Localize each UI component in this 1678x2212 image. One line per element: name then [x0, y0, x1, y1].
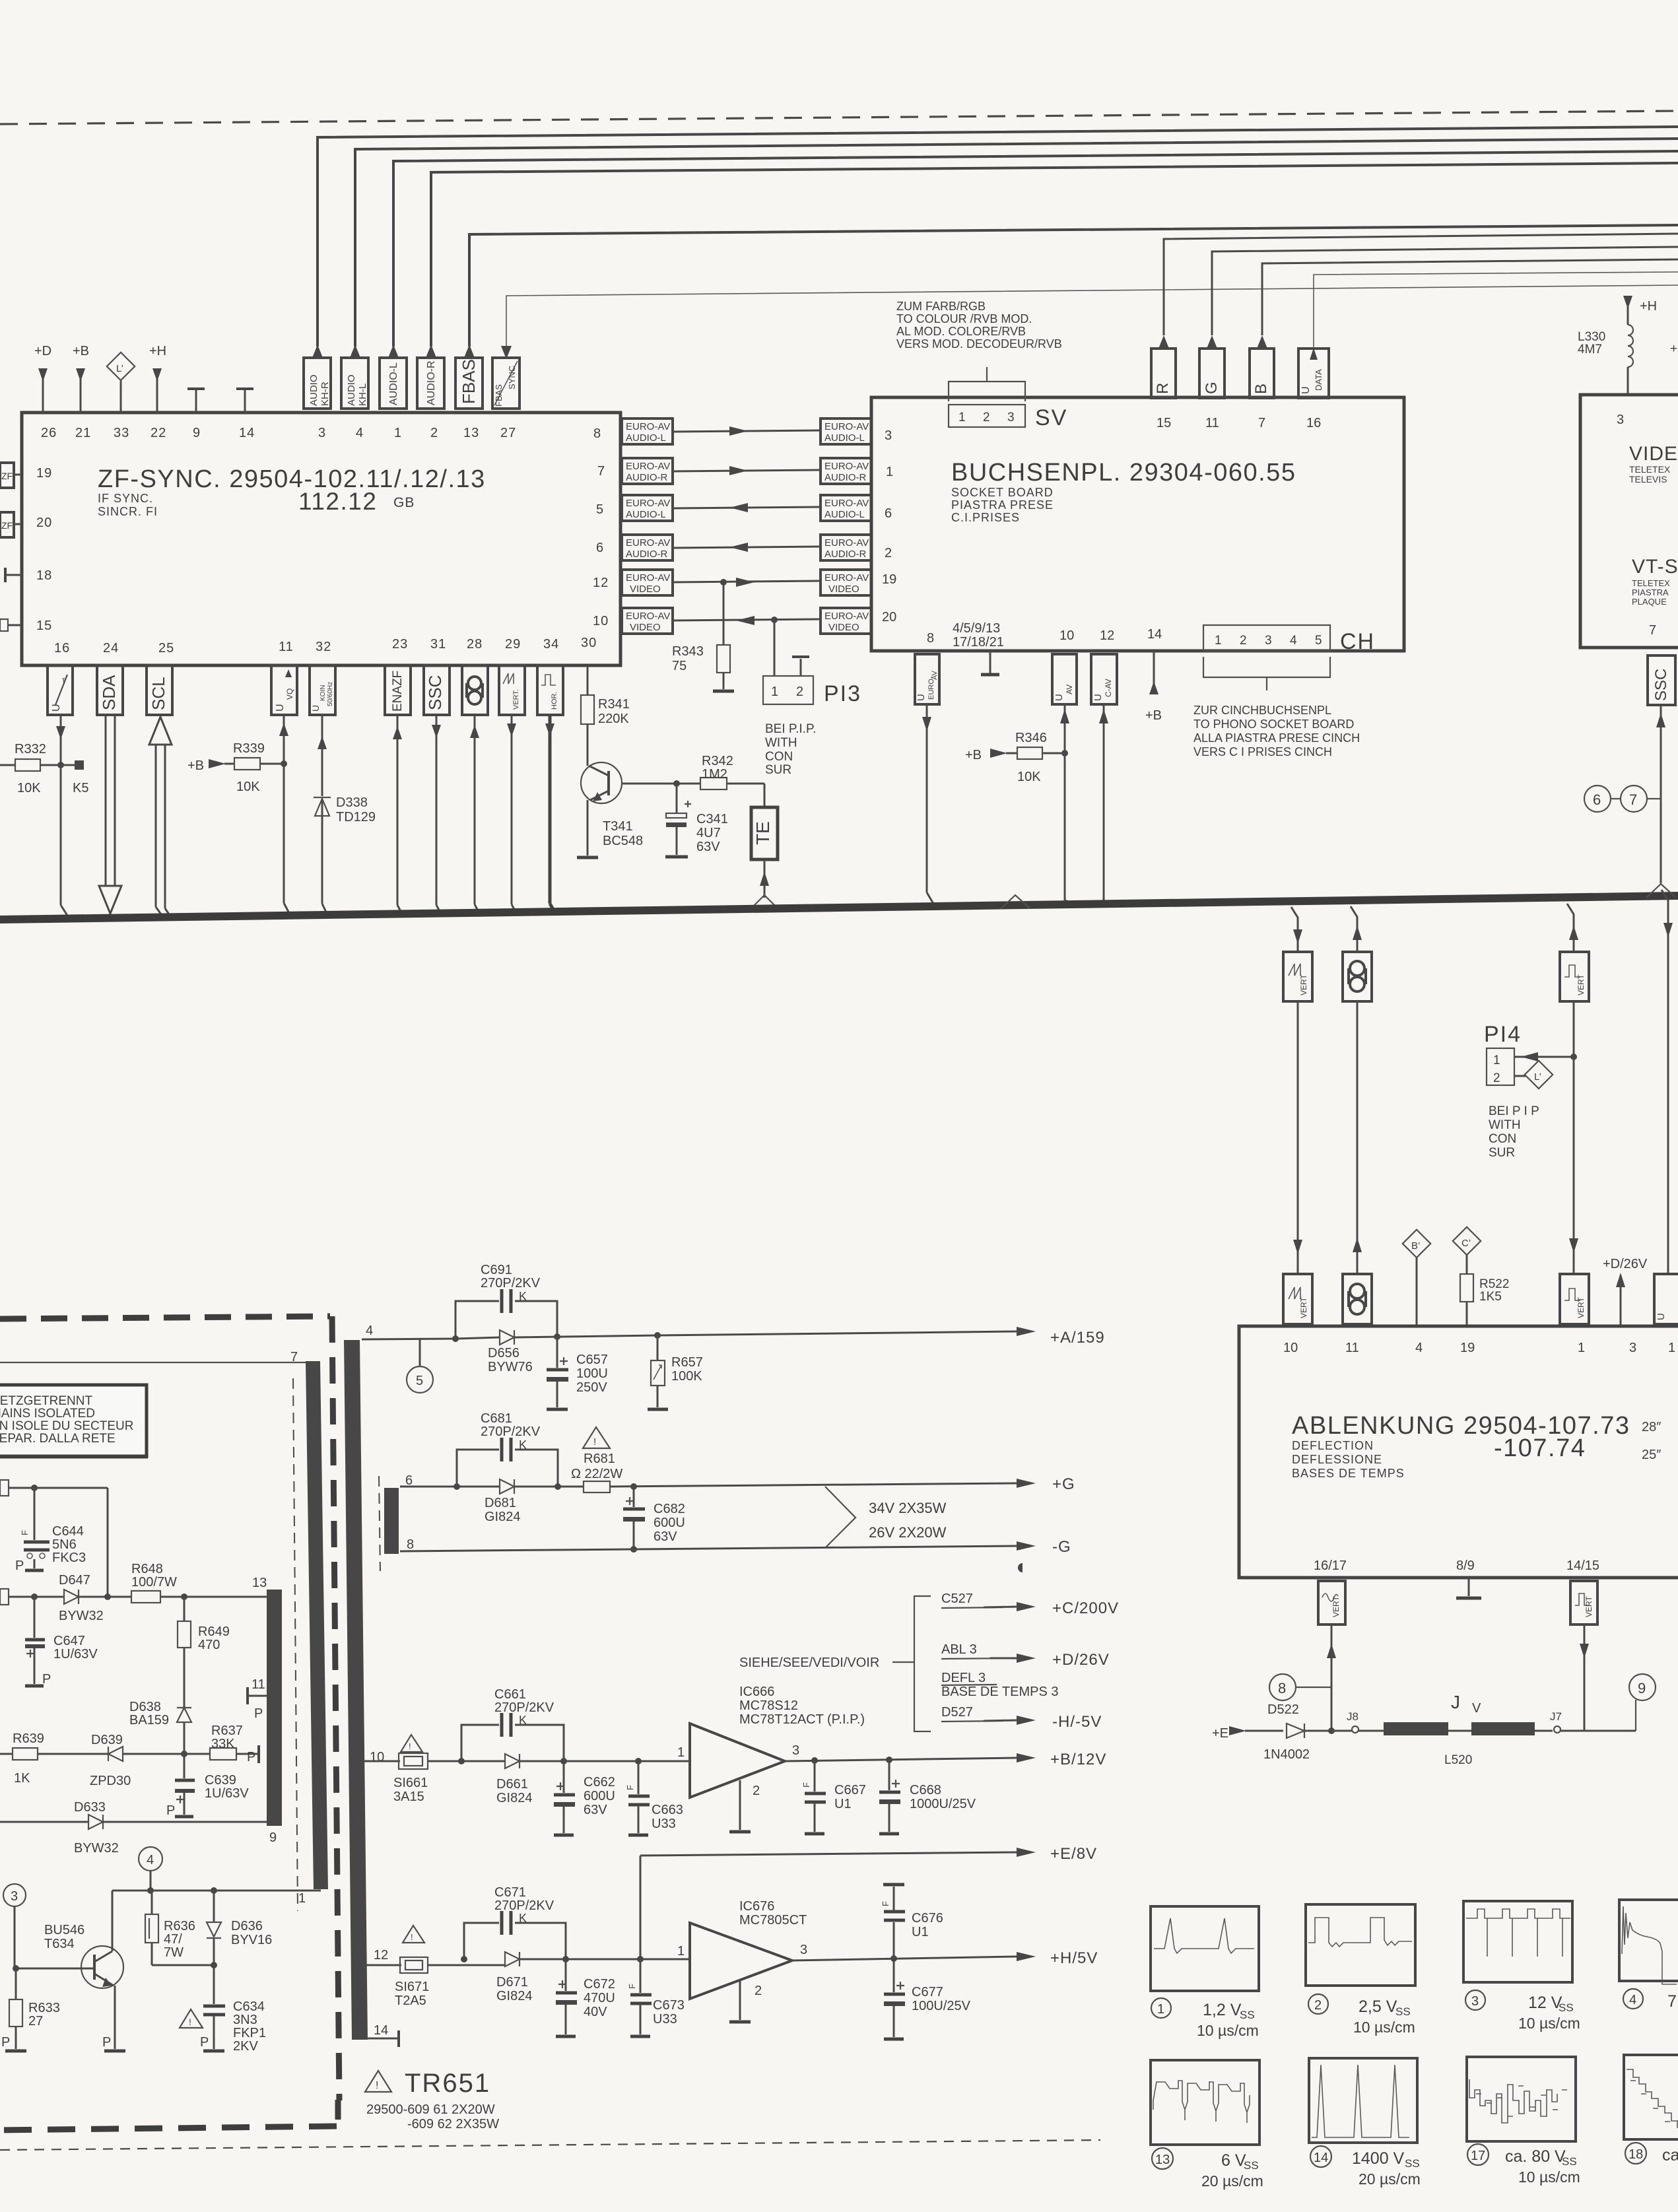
svg-text:AUDIO: AUDIO: [308, 374, 319, 406]
svg-text:1: 1: [1668, 1341, 1675, 1355]
capacitor C647 1U/63V: [25, 1597, 98, 1687]
svg-text:AUDIO-L: AUDIO-L: [824, 432, 865, 444]
svg-text:P: P: [102, 2035, 111, 2050]
svg-text:VIDEO: VIDEO: [828, 622, 859, 633]
svg-text:+B: +B: [965, 748, 982, 762]
svg-text:470: 470: [198, 1638, 220, 1652]
svg-text:L520: L520: [1444, 1753, 1472, 1767]
svg-text:C662: C662: [584, 1775, 615, 1790]
connector box U-tau ZF pin16: [48, 665, 73, 715]
svg-text:1: 1: [677, 1944, 685, 1959]
svg-text:14: 14: [1147, 627, 1162, 642]
svg-text:2: 2: [1240, 634, 1247, 648]
wire coil chain down: [1353, 1001, 1362, 1274]
svg-text:!: !: [411, 1932, 413, 1942]
svg-text:SS: SS: [1240, 2009, 1255, 2021]
svg-text:BUCHSENPL. 29304-060.55: BUCHSENPL. 29304-060.55: [951, 459, 1296, 486]
transformer pin6 output wire +G row: [400, 1473, 500, 1490]
svg-text:!: !: [376, 2080, 378, 2091]
svg-text:1U/63V: 1U/63V: [205, 1786, 249, 1801]
svg-text:R343: R343: [672, 644, 704, 659]
bus arrow SDA double line down: [99, 715, 121, 914]
power +B stub buchsenpl pin14: [1145, 651, 1162, 723]
svg-text:P: P: [1, 2035, 10, 2050]
svg-text:D633: D633: [74, 1800, 106, 1815]
wire ZF pin11 U-VQ to bus: [279, 715, 290, 916]
svg-text:TELEVIS: TELEVIS: [1629, 474, 1667, 485]
svg-text:U: U: [1656, 1313, 1667, 1320]
svg-text:L330: L330: [1578, 330, 1605, 344]
svg-text:R339: R339: [233, 741, 265, 756]
svg-text:EURO-AV: EURO-AV: [824, 611, 869, 622]
module boundary thin dashed bottom: [0, 2140, 1100, 2150]
svg-text:TR651: TR651: [405, 2069, 490, 2098]
svg-text:250V: 250V: [576, 1380, 607, 1395]
connector box coil icon upper: [1343, 952, 1372, 1001]
svg-text:AL MOD. COLORE/RVB: AL MOD. COLORE/RVB: [896, 325, 1026, 338]
svg-text:SSC: SSC: [1652, 669, 1670, 701]
svg-text:4: 4: [1415, 1341, 1423, 1355]
svg-text:112.12: 112.12: [298, 488, 377, 515]
ZF left pin numbers: [36, 466, 52, 633]
svg-text:20 µs/cm: 20 µs/cm: [1201, 2172, 1263, 2190]
svg-text:T341: T341: [603, 819, 633, 834]
svg-text:EURO-AV: EURO-AV: [626, 572, 670, 584]
svg-text:-107.74: -107.74: [1494, 1434, 1586, 1462]
svg-text:PIASTRA: PIASTRA: [1632, 587, 1669, 597]
svg-text:AUDIO-R: AUDIO-R: [824, 472, 867, 483]
oscillogram label 14: [1310, 2146, 1421, 2188]
power +D arrow on ZF pin26: [34, 344, 51, 413]
svg-text:MAINS ISOLATED: MAINS ISOLATED: [0, 1407, 95, 1421]
svg-text:9: 9: [269, 1830, 277, 1845]
svg-text:AUDIO: AUDIO: [346, 374, 357, 406]
svg-text:C671: C671: [494, 1885, 526, 1900]
svg-text:AUDIO-R: AUDIO-R: [626, 472, 668, 483]
connector box B buchsenpl pin7: [1250, 259, 1678, 398]
wire bus to deflection pin1 pulse: [1567, 904, 1578, 952]
resistor R681 22/2W with warning: [571, 1427, 1017, 1492]
label ZUR CINCHBUCHSENPL block: [1193, 704, 1360, 758]
oscillogram box 1: [1151, 1906, 1259, 1991]
svg-text:ENAZF: ENAZF: [391, 671, 405, 712]
svg-text:SI661: SI661: [393, 1776, 428, 1790]
svg-text:CON: CON: [765, 750, 793, 764]
svg-text:J8: J8: [1347, 1710, 1359, 1723]
svg-text:VERT: VERT: [1576, 974, 1586, 995]
label ZUM FARB/RGB block: [896, 300, 1062, 351]
oscillogram label 1: [1151, 1998, 1259, 2039]
svg-text:D647: D647: [59, 1573, 90, 1588]
svg-text:ZUR CINCHBUCHSENPL: ZUR CINCHBUCHSENPL: [1193, 704, 1331, 717]
svg-text:33: 33: [114, 426, 129, 440]
svg-text:10 µs/cm: 10 µs/cm: [1518, 2015, 1580, 2032]
svg-text:5: 5: [1315, 634, 1322, 648]
connector stub pin5 left edge: [0, 1589, 64, 1605]
svg-text:1U/63V: 1U/63V: [53, 1647, 98, 1661]
BUCHSENPL left pin numbers: [882, 428, 896, 624]
svg-text:R332: R332: [15, 742, 46, 756]
wire transformer pin7: [0, 1350, 306, 1364]
svg-text:R: R: [1154, 383, 1172, 394]
svg-text:+B: +B: [73, 344, 89, 358]
capacitor C668 1000U/25V: [879, 1760, 976, 1834]
svg-text:63V: 63V: [584, 1803, 607, 1817]
svg-text:BEI P I P: BEI P I P: [1489, 1104, 1539, 1118]
svg-text:P: P: [15, 1558, 24, 1573]
capacitor C677 100U/25V: [884, 1959, 971, 2039]
svg-text:7: 7: [1667, 1992, 1677, 2011]
BUCHSENPL bottom pin numbers: [927, 627, 1162, 646]
connector box VERT sawtooth upper: [1283, 952, 1312, 1001]
svg-text:3: 3: [800, 1943, 807, 1957]
svg-text:ZUM FARB/RGB: ZUM FARB/RGB: [896, 300, 986, 313]
svg-text:26V 2X20W: 26V 2X20W: [869, 1524, 947, 1541]
svg-text:63V: 63V: [696, 840, 720, 854]
svg-text:22: 22: [151, 426, 166, 440]
svg-text:7: 7: [1258, 416, 1265, 430]
svg-text:12: 12: [374, 1948, 388, 1962]
svg-text:40V: 40V: [584, 2005, 607, 2019]
oscillogram label 4: [1623, 1989, 1677, 2011]
svg-text:VERT: VERT: [1299, 1297, 1308, 1318]
svg-text:3N3: 3N3: [233, 2013, 257, 2027]
svg-text:FKP1: FKP1: [233, 2026, 266, 2040]
connector box SSC video board pin7: [1648, 655, 1675, 883]
svg-text:11: 11: [1205, 416, 1219, 430]
rail tap ABL 3 to +D/26V: [941, 1642, 1110, 1669]
svg-text:MC7805CT: MC7805CT: [739, 1913, 807, 1927]
connector CH 1 2 3 4 5: [1203, 625, 1375, 690]
svg-text:VIDEO: VIDEO: [630, 584, 661, 595]
svg-text:R633: R633: [28, 2001, 60, 2015]
diode D681 GI824: [485, 1479, 584, 1524]
svg-text:GI824: GI824: [485, 1510, 520, 1524]
svg-text:75: 75: [672, 659, 687, 673]
svg-text:13: 13: [463, 426, 479, 440]
connector box G buchsenpl pin11: [1199, 247, 1678, 398]
svg-text:VT-S: VT-S: [1632, 556, 1678, 578]
resistor R649 470: [178, 1597, 230, 1710]
oscillogram box 18: [1624, 2055, 1678, 2139]
connector box FBAS pin13: [455, 345, 483, 409]
bus arrow SCL double line up: [149, 717, 172, 917]
connector box VERT sawtooth lower: [1283, 1274, 1312, 1324]
svg-text:SS: SS: [1405, 2157, 1420, 2170]
svg-text:1: 1: [1493, 1054, 1500, 1067]
svg-text:24: 24: [103, 641, 119, 655]
svg-text:5: 5: [416, 1374, 423, 1388]
svg-text:BASE DE TEMPS 3: BASE DE TEMPS 3: [941, 1685, 1058, 1699]
connector box HOR pulse ZF pin34: [537, 665, 563, 715]
svg-text:7W: 7W: [164, 1945, 184, 1960]
svg-text:1K: 1K: [14, 1771, 30, 1786]
power rail +H/5V arrow: [792, 1949, 1098, 1967]
svg-text:18: 18: [36, 568, 52, 583]
terminal T pin14: [236, 389, 253, 413]
svg-text:K5: K5: [73, 781, 88, 795]
connector box U-VQ ZF pin11: [271, 665, 297, 715]
svg-text:SV: SV: [1035, 405, 1067, 430]
svg-text:10: 10: [593, 614, 609, 628]
svg-text:1K5: 1K5: [1479, 1290, 1502, 1304]
svg-text:EURO-AV: EURO-AV: [626, 421, 670, 432]
connector EURO-AV boxes left column on ZF right edge: [622, 419, 871, 634]
svg-text:12: 12: [593, 576, 609, 590]
label SIEHE/SEE/VEDI/VOIR with bracket: [739, 1596, 931, 1731]
svg-text:21: 21: [75, 426, 91, 440]
ABLENKUNG bottom pin numbers: [1314, 1558, 1599, 1573]
transistor T341 BC548: [577, 762, 700, 857]
capacitor C682 600U 63V: [623, 1487, 685, 1553]
svg-text:2: 2: [1493, 1071, 1500, 1085]
svg-text:3: 3: [1629, 1341, 1636, 1355]
svg-text:19: 19: [36, 466, 52, 481]
connector box EURO-AV VIDEO pin12: [622, 570, 673, 595]
svg-text:TD129: TD129: [336, 810, 376, 824]
svg-text:P: P: [42, 1672, 51, 1687]
power +H arrow with inductor L330 4M7: [1578, 296, 1677, 395]
svg-text:7: 7: [597, 464, 605, 479]
svg-text:20: 20: [36, 516, 52, 530]
bus entry triangle under TE: [1001, 895, 1030, 909]
svg-text:4: 4: [147, 1853, 154, 1867]
svg-text:D527: D527: [941, 1705, 973, 1720]
svg-text:VERT: VERT: [1576, 1297, 1586, 1318]
svg-text:EURO-AV: EURO-AV: [626, 498, 670, 509]
connector box EURO-AV AUDIO-L buchsenpl pin6: [821, 495, 871, 521]
connector box coil icon ZF pin28: [462, 665, 488, 715]
svg-text:C657: C657: [576, 1353, 608, 1367]
svg-text:P: P: [254, 1706, 263, 1721]
wire VERT chain down: [1293, 1001, 1302, 1274]
svg-text:FKC3: FKC3: [52, 1551, 86, 1565]
fuse SI661 3A15 with warning: [364, 1735, 505, 1804]
svg-text:L’: L’: [1534, 1071, 1541, 1083]
wire pulse chain down through PI4 junction: [1569, 1001, 1578, 1274]
ABLENKUNG top pin numbers: [1283, 1341, 1675, 1355]
ZF top pin numbers: [41, 426, 516, 440]
svg-text:+G: +G: [1052, 1475, 1075, 1493]
svg-text:AUDIO-R: AUDIO-R: [626, 549, 668, 560]
svg-text:C639: C639: [205, 1773, 236, 1788]
svg-text:U: U: [916, 694, 927, 701]
svg-text:15: 15: [36, 619, 52, 633]
svg-text:B: B: [1252, 384, 1270, 394]
svg-text:TO COLOUR /RVB MOD.: TO COLOUR /RVB MOD.: [896, 312, 1032, 325]
block BUCHSENPL socket board: [871, 397, 1404, 651]
svg-text:MC78S12: MC78S12: [739, 1698, 798, 1713]
svg-text:9: 9: [193, 426, 201, 440]
node C' diamond: [1453, 1227, 1481, 1255]
svg-text:!: !: [593, 1436, 596, 1448]
svg-text:C644: C644: [52, 1524, 84, 1539]
resistor R522 1K5: [1460, 1255, 1509, 1326]
svg-text:C’: C’: [1461, 1238, 1471, 1249]
svg-text:CH: CH: [1340, 629, 1375, 654]
svg-text:10 µs/cm: 10 µs/cm: [1353, 2019, 1415, 2036]
svg-text:C-AV: C-AV: [1104, 679, 1113, 697]
svg-text:16: 16: [1306, 416, 1321, 430]
svg-text:AUDIO-R: AUDIO-R: [426, 360, 437, 405]
svg-text:9: 9: [1638, 1680, 1646, 1696]
svg-text:2: 2: [885, 546, 892, 560]
label BEI P.I.P WITH CON SUR: [765, 722, 816, 777]
terminal K5: [61, 760, 88, 795]
svg-text:6: 6: [596, 541, 604, 555]
svg-text:SIEHE/SEE/VEDI/VOIR: SIEHE/SEE/VEDI/VOIR: [739, 1656, 879, 1670]
connector box U AV buchsenpl pin10: [1052, 654, 1077, 902]
diode D638 BA159: [129, 1700, 191, 1754]
svg-text:R681: R681: [584, 1452, 615, 1466]
wire collector row to winding pin1: [112, 1887, 321, 1906]
connector PI3: [763, 620, 861, 706]
svg-text:B’: B’: [1411, 1240, 1420, 1252]
svg-text:-H/-5V: -H/-5V: [1052, 1713, 1102, 1731]
svg-text:F: F: [625, 1785, 635, 1790]
wire bus to deflection pin10 sawtooth: [1291, 907, 1302, 952]
power module heavy dashed boundary right vertical: [332, 1316, 339, 2100]
svg-text:16: 16: [54, 641, 70, 655]
capacitor C639 1U/63V: [166, 1754, 249, 1818]
svg-text:3: 3: [1617, 413, 1624, 427]
svg-text:C667: C667: [834, 1783, 866, 1797]
connector box EURO-AV VIDEO buchsenpl pin20: [821, 608, 871, 634]
capacitor C341 4U7 63V: [665, 780, 728, 857]
wire ZF pin29 VERT to bus: [507, 715, 518, 916]
svg-text:13: 13: [252, 1576, 267, 1590]
svg-text:1: 1: [1215, 634, 1222, 648]
svg-text:+A/159: +A/159: [1050, 1329, 1105, 1347]
connector stub pin4 left edge: [0, 1480, 108, 1597]
svg-text:EURO-AV: EURO-AV: [626, 537, 670, 549]
ZF bottom pin numbers: [54, 636, 597, 655]
svg-text:29: 29: [505, 637, 521, 652]
diode D636 BYV16: [207, 1891, 272, 2004]
svg-text:1,2 V: 1,2 V: [1203, 2001, 1242, 2019]
transformer winding bar pins 13-9: [267, 1590, 282, 1826]
power +E feed arrow: [1212, 1726, 1283, 1741]
svg-text:D681: D681: [485, 1496, 516, 1510]
svg-text:K: K: [519, 1912, 527, 1925]
svg-text:1: 1: [958, 411, 966, 424]
svg-text:R639: R639: [13, 1731, 44, 1746]
svg-text:VERT.: VERT.: [512, 689, 520, 710]
capacitor C681 270P/2KV: [457, 1411, 558, 1487]
connector box AUDIO-L pin1: [380, 345, 407, 409]
power rail -G arrow: [1017, 1538, 1071, 1556]
svg-text:+H: +H: [149, 344, 166, 358]
power module heavy dashed boundary top: [0, 1316, 330, 1319]
svg-text:+E: +E: [1212, 1726, 1228, 1741]
svg-text:D661: D661: [496, 1777, 528, 1792]
svg-text:19: 19: [882, 572, 896, 587]
svg-text:T2A5: T2A5: [395, 1994, 426, 2008]
voltage regulator IC676 MC7805CT: [677, 1899, 807, 2022]
svg-text:1: 1: [1578, 1341, 1585, 1355]
svg-text:3: 3: [792, 1743, 799, 1758]
resistor R343 75: [672, 582, 734, 691]
svg-text:U1: U1: [912, 1925, 929, 1939]
svg-text:K: K: [519, 1714, 527, 1727]
svg-text:VERS C I PRISES CINCH: VERS C I PRISES CINCH: [1193, 745, 1332, 758]
svg-text:R637: R637: [211, 1724, 243, 1738]
transformer winding bar pins 6-8: [384, 1488, 399, 1554]
svg-text:3A15: 3A15: [393, 1790, 424, 1804]
svg-text:3: 3: [1471, 1994, 1479, 2009]
svg-text:23: 23: [392, 637, 408, 652]
terminal pin18 left: [5, 568, 22, 582]
connector PI4: [1484, 1022, 1577, 1085]
node circle 9: [1629, 1674, 1656, 1731]
svg-text:IF SYNC.: IF SYNC.: [98, 492, 153, 505]
svg-text:6: 6: [1593, 791, 1601, 808]
svg-text:F: F: [627, 1984, 637, 1989]
svg-text:ZPD30: ZPD30: [90, 1774, 131, 1788]
connector box U-DATA buchsenpl pin16: [1298, 272, 1678, 398]
capacitor C663 U33: [625, 1761, 683, 1835]
svg-text:PI3: PI3: [824, 681, 861, 706]
svg-text:AV: AV: [1065, 685, 1074, 694]
capacitor C667 U1: [801, 1760, 866, 1834]
wire audio-L row with arrow right: [673, 426, 821, 436]
connector box EURO-AV AUDIO-R buchsenpl pin1: [821, 458, 871, 484]
svg-text:63V: 63V: [654, 1529, 677, 1544]
svg-text:SS: SS: [1559, 2001, 1574, 2014]
svg-text:EURO-AV: EURO-AV: [824, 537, 869, 549]
svg-text:11: 11: [252, 1677, 265, 1692]
wire ZF pin34 HOR to bus thick: [545, 715, 556, 915]
wire audio KH-L pin4 to right edge: [355, 139, 1678, 347]
wire audio-R pin2 to right edge: [431, 163, 1678, 347]
ground stub deflection 8/9: [1456, 1578, 1481, 1598]
connector box ENAZF ZF pin23: [385, 665, 411, 715]
svg-text:2: 2: [755, 1984, 762, 1998]
svg-text:10: 10: [370, 1750, 384, 1764]
svg-text:ALLA PIASTRA PRESE CINCH: ALLA PIASTRA PRESE CINCH: [1193, 731, 1360, 745]
svg-text:U: U: [51, 704, 62, 712]
terminal stub pin11 with P: [248, 1677, 267, 1721]
connector box EURO-AV AUDIO-R pin6: [622, 535, 673, 560]
svg-text:D522: D522: [1267, 1702, 1299, 1717]
connector box U right cut: [1654, 1274, 1678, 1324]
svg-text:26: 26: [41, 426, 57, 440]
svg-text:KH-R: KH-R: [319, 382, 331, 406]
svg-text:6: 6: [885, 506, 892, 521]
svg-text:F: F: [881, 1901, 890, 1906]
svg-text:8: 8: [927, 631, 934, 646]
svg-text:270P/2KV: 270P/2KV: [494, 1898, 554, 1913]
wire audio-L return row arrow left: [673, 503, 821, 512]
svg-text:20 µs/cm: 20 µs/cm: [1359, 2170, 1421, 2188]
svg-text:C663: C663: [652, 1803, 683, 1817]
transformer pin8 output wire -G row: [400, 1537, 1017, 1552]
rail tap D527 to -H/-5V: [941, 1705, 1102, 1731]
label TR651 part numbers: [366, 2102, 499, 2131]
resistor R341 on ZF pin30: [581, 665, 630, 766]
svg-text:BU546: BU546: [44, 1923, 84, 1937]
svg-text:13: 13: [1155, 2153, 1170, 2167]
diode D656 BYW76: [488, 1330, 657, 1374]
svg-text:EURO-AV: EURO-AV: [824, 461, 869, 472]
power rail +A/159 arrow: [657, 1327, 1105, 1347]
svg-text:50/60Hz: 50/60Hz: [327, 682, 334, 706]
svg-text:NETZGETRENNT: NETZGETRENNT: [0, 1394, 93, 1408]
svg-text:3: 3: [11, 1889, 18, 1904]
svg-text:30: 30: [581, 636, 597, 650]
node circle 8: [1269, 1674, 1331, 1700]
svg-text:VIDEO: VIDEO: [630, 622, 661, 633]
